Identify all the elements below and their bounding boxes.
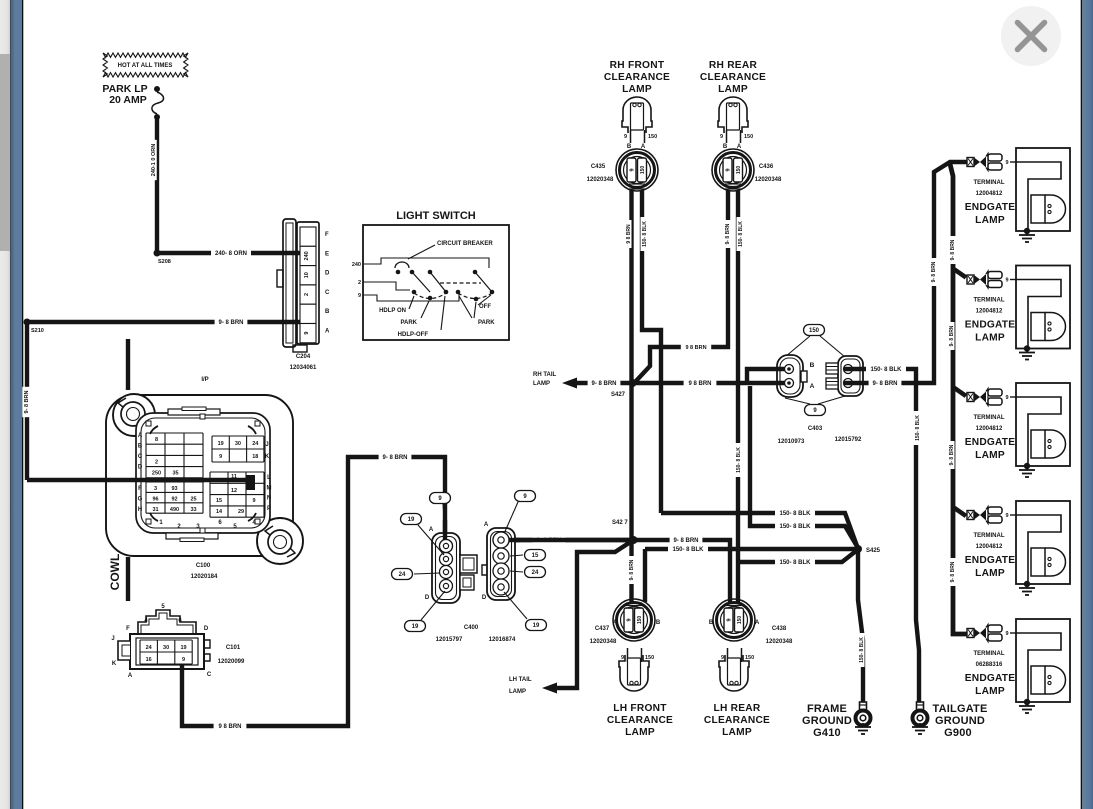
svg-text:150- 8 BLK: 150- 8 BLK	[779, 560, 811, 566]
svg-text:C: C	[207, 672, 212, 678]
svg-text:25: 25	[190, 496, 196, 502]
svg-text:F: F	[126, 626, 130, 632]
svg-text:19: 19	[412, 624, 419, 630]
svg-text:HDLP ON: HDLP ON	[379, 308, 406, 314]
svg-text:9: 9	[720, 134, 723, 140]
svg-text:K: K	[265, 454, 270, 460]
svg-text:F: F	[325, 232, 329, 238]
svg-text:S427: S427	[611, 392, 626, 398]
svg-text:240: 240	[352, 262, 361, 268]
svg-text:240-1 0 ORN: 240-1 0 ORN	[151, 144, 157, 176]
svg-text:G410: G410	[813, 727, 841, 739]
svg-text:PARK: PARK	[478, 320, 495, 326]
svg-text:9: 9	[727, 618, 733, 621]
svg-text:E: E	[325, 251, 329, 257]
svg-text:24: 24	[252, 441, 259, 447]
svg-text:N: N	[267, 496, 271, 502]
svg-text:9: 9	[726, 168, 732, 171]
svg-text:S210: S210	[31, 328, 44, 334]
svg-text:M: M	[267, 485, 272, 491]
svg-text:19: 19	[408, 517, 415, 523]
svg-text:9: 9	[1005, 395, 1008, 401]
svg-text:G: G	[138, 497, 143, 503]
svg-text:LAMP: LAMP	[509, 689, 526, 695]
svg-text:9: 9	[252, 498, 255, 504]
svg-text:9: 9	[1005, 160, 1008, 166]
svg-text:15: 15	[532, 553, 539, 559]
svg-text:LH REAR: LH REAR	[713, 703, 760, 714]
svg-text:GROUND: GROUND	[802, 715, 852, 727]
svg-text:LH TAIL: LH TAIL	[509, 677, 532, 683]
svg-text:LAMP: LAMP	[722, 727, 752, 738]
svg-text:150- 8 BLK: 150- 8 BLK	[915, 415, 921, 441]
svg-text:150: 150	[809, 328, 820, 334]
svg-text:C436: C436	[759, 164, 774, 170]
svg-text:ENDGATE: ENDGATE	[965, 555, 1015, 566]
svg-text:19: 19	[533, 623, 540, 629]
svg-text:C400: C400	[464, 625, 479, 631]
svg-text:8: 8	[155, 437, 158, 443]
svg-text:12010973: 12010973	[778, 439, 805, 445]
svg-text:ENDGATE: ENDGATE	[965, 437, 1015, 448]
svg-text:ENDGATE: ENDGATE	[965, 320, 1015, 331]
svg-text:TERMINAL: TERMINAL	[974, 298, 1005, 304]
svg-text:C438: C438	[772, 626, 787, 632]
svg-text:S42 7: S42 7	[612, 520, 628, 526]
svg-text:150- 8 BLK: 150- 8 BLK	[672, 547, 704, 553]
svg-text:9: 9	[627, 618, 633, 621]
svg-text:GROUND: GROUND	[935, 715, 985, 727]
svg-text:I/P: I/P	[201, 377, 208, 383]
svg-text:C: C	[325, 290, 330, 296]
svg-text:LAMP: LAMP	[533, 381, 550, 387]
svg-text:12004812: 12004812	[976, 544, 1003, 550]
svg-text:G900: G900	[944, 727, 972, 739]
svg-text:12020348: 12020348	[766, 639, 793, 645]
svg-text:D: D	[482, 595, 487, 601]
svg-text:RH TAIL: RH TAIL	[533, 372, 557, 378]
svg-text:S208: S208	[158, 259, 171, 265]
svg-text:150- 8 BLK: 150- 8 BLK	[736, 447, 742, 473]
svg-text:A: A	[128, 673, 133, 679]
svg-text:9- 8 BRN: 9- 8 BRN	[673, 538, 698, 544]
svg-text:PARK: PARK	[400, 320, 417, 326]
svg-text:A: A	[810, 383, 815, 390]
svg-text:2: 2	[304, 293, 310, 296]
svg-text:TERMINAL: TERMINAL	[974, 651, 1005, 657]
svg-text:C100: C100	[196, 563, 211, 569]
svg-text:18: 18	[252, 454, 258, 460]
svg-text:LAMP: LAMP	[975, 568, 1005, 579]
svg-text:9: 9	[182, 657, 185, 663]
svg-text:12020348: 12020348	[755, 177, 782, 183]
svg-text:9- 8 BRN: 9- 8 BRN	[382, 455, 407, 461]
svg-text:150- 8 BLK: 150- 8 BLK	[738, 221, 744, 247]
svg-text:F: F	[138, 486, 142, 492]
svg-text:A: A	[755, 620, 760, 626]
svg-text:9 8 BRN: 9 8 BRN	[685, 345, 706, 351]
svg-text:A: A	[613, 620, 618, 626]
svg-text:150: 150	[736, 166, 742, 175]
svg-text:LAMP: LAMP	[622, 84, 652, 95]
svg-text:9- 8 BRN: 9- 8 BRN	[949, 444, 955, 465]
svg-text:150: 150	[640, 166, 646, 175]
svg-text:9: 9	[1005, 513, 1008, 519]
svg-text:LAMP: LAMP	[975, 450, 1005, 461]
svg-text:D: D	[138, 465, 143, 471]
svg-text:C403: C403	[808, 426, 823, 432]
svg-text:240: 240	[304, 251, 310, 260]
svg-text:9: 9	[621, 655, 624, 661]
svg-text:150: 150	[737, 616, 743, 625]
svg-text:12034061: 12034061	[290, 365, 317, 371]
svg-text:OFF: OFF	[479, 304, 491, 310]
svg-text:C437: C437	[595, 626, 610, 632]
svg-text:35: 35	[172, 471, 178, 477]
svg-text:12020099: 12020099	[218, 659, 245, 665]
svg-text:12: 12	[231, 488, 237, 494]
svg-text:FRAME: FRAME	[807, 703, 847, 715]
svg-text:16: 16	[146, 657, 152, 663]
svg-text:COWL: COWL	[108, 554, 122, 591]
svg-text:CLEARANCE: CLEARANCE	[604, 72, 670, 83]
svg-text:12015797: 12015797	[436, 637, 463, 643]
svg-text:12004812: 12004812	[976, 426, 1003, 432]
svg-text:490: 490	[170, 507, 179, 513]
svg-text:150- 8 BLK: 150- 8 BLK	[779, 511, 811, 517]
svg-text:9: 9	[304, 332, 310, 335]
svg-text:150- 8 BLK: 150- 8 BLK	[779, 524, 811, 530]
svg-text:A: A	[138, 433, 143, 439]
svg-text:12016874: 12016874	[489, 637, 516, 643]
svg-text:RH FRONT: RH FRONT	[610, 60, 665, 71]
svg-text:9: 9	[1005, 278, 1008, 284]
svg-text:HDLP-OFF: HDLP-OFF	[398, 332, 429, 338]
svg-text:12004812: 12004812	[976, 191, 1003, 197]
svg-text:24: 24	[146, 645, 153, 651]
svg-text:A: A	[484, 522, 489, 528]
svg-text:9- 8 BRN: 9- 8 BRN	[218, 320, 243, 326]
svg-text:9: 9	[1005, 631, 1008, 637]
svg-text:240- 8 ORN: 240- 8 ORN	[215, 251, 247, 257]
svg-text:LAMP: LAMP	[975, 686, 1005, 697]
svg-text:LIGHT SWITCH: LIGHT SWITCH	[396, 210, 475, 222]
svg-text:12004812: 12004812	[976, 309, 1003, 315]
svg-text:250: 250	[152, 471, 161, 477]
svg-text:B: B	[810, 362, 815, 369]
svg-text:D: D	[204, 626, 209, 632]
svg-text:J: J	[111, 636, 114, 642]
svg-text:150: 150	[744, 134, 753, 140]
svg-text:LAMP: LAMP	[625, 727, 655, 738]
svg-text:S425: S425	[866, 548, 881, 554]
svg-text:10: 10	[304, 272, 310, 278]
svg-text:CLEARANCE: CLEARANCE	[700, 72, 766, 83]
svg-text:06288316: 06288316	[976, 662, 1003, 668]
svg-text:150: 150	[637, 616, 643, 625]
svg-text:2: 2	[155, 459, 158, 465]
svg-text:CLEARANCE: CLEARANCE	[704, 715, 770, 726]
svg-text:24: 24	[399, 572, 406, 578]
svg-text:9- 8 BRN: 9- 8 BRN	[591, 381, 616, 387]
svg-text:A: A	[429, 527, 434, 533]
svg-text:9- 8 BRN: 9- 8 BRN	[950, 561, 956, 582]
svg-text:150: 150	[745, 655, 754, 661]
svg-text:9: 9	[624, 134, 627, 140]
svg-text:LAMP: LAMP	[718, 84, 748, 95]
svg-text:C: C	[138, 454, 143, 460]
svg-text:12020348: 12020348	[587, 177, 614, 183]
svg-text:19: 19	[218, 441, 224, 447]
svg-text:P: P	[267, 506, 271, 512]
svg-text:C101: C101	[226, 645, 241, 651]
svg-text:ENDGATE: ENDGATE	[965, 202, 1015, 213]
svg-text:30: 30	[163, 645, 169, 651]
svg-text:H: H	[138, 507, 142, 513]
svg-text:B: B	[709, 620, 714, 626]
svg-text:9: 9	[219, 454, 222, 460]
svg-text:LH FRONT: LH FRONT	[613, 703, 667, 714]
svg-text:K: K	[112, 661, 117, 667]
svg-text:TERMINAL: TERMINAL	[974, 180, 1005, 186]
svg-text:B: B	[138, 444, 143, 450]
svg-text:CIRCUIT BREAKER: CIRCUIT BREAKER	[437, 241, 493, 247]
svg-text:C204: C204	[296, 354, 311, 360]
svg-text:B: B	[656, 620, 661, 626]
svg-text:9- 8 BRN: 9- 8 BRN	[931, 261, 937, 282]
svg-text:9- 8 BRN: 9- 8 BRN	[872, 381, 897, 387]
svg-text:14: 14	[216, 509, 223, 515]
svg-text:TERMINAL: TERMINAL	[974, 533, 1005, 539]
svg-text:D: D	[425, 595, 430, 601]
svg-text:12015792: 12015792	[835, 437, 862, 443]
svg-text:9 8 BRN: 9 8 BRN	[626, 224, 632, 244]
svg-text:33: 33	[190, 507, 196, 513]
svg-text:HOT AT ALL TIMES: HOT AT ALL TIMES	[118, 63, 173, 69]
svg-text:150- 8 BLK: 150- 8 BLK	[870, 367, 902, 373]
svg-text:RH REAR: RH REAR	[709, 60, 758, 71]
svg-text:TERMINAL: TERMINAL	[974, 415, 1005, 421]
svg-text:150: 150	[645, 655, 654, 661]
svg-text:9: 9	[358, 293, 361, 299]
svg-text:CLEARANCE: CLEARANCE	[607, 715, 673, 726]
svg-text:31: 31	[152, 507, 158, 513]
svg-text:9- 8 BRN: 9- 8 BRN	[949, 325, 955, 346]
svg-text:9 8 BRN: 9 8 BRN	[688, 381, 711, 387]
svg-text:9 8 BRN: 9 8 BRN	[218, 724, 241, 730]
svg-text:9- 8 BRN: 9- 8 BRN	[629, 559, 635, 580]
svg-text:LAMP: LAMP	[975, 333, 1005, 344]
svg-text:24: 24	[532, 570, 539, 576]
svg-text:9- 8 BRN: 9- 8 BRN	[950, 239, 956, 260]
svg-text:B: B	[325, 309, 330, 315]
svg-text:150- 8 BLK: 150- 8 BLK	[859, 637, 865, 663]
svg-text:2: 2	[358, 280, 361, 286]
svg-text:150: 150	[648, 134, 657, 140]
svg-text:LAMP: LAMP	[975, 215, 1005, 226]
svg-text:19: 19	[180, 645, 186, 651]
svg-text:12020184: 12020184	[191, 574, 218, 580]
svg-text:96: 96	[152, 496, 158, 502]
svg-text:150- 8 BLK: 150- 8 BLK	[642, 221, 648, 247]
svg-text:9- 8 BRN: 9- 8 BRN	[24, 391, 30, 414]
svg-text:20 AMP: 20 AMP	[109, 94, 147, 106]
svg-text:9: 9	[630, 168, 636, 171]
svg-text:93: 93	[171, 486, 177, 492]
svg-text:A: A	[325, 329, 330, 335]
svg-text:J: J	[265, 442, 268, 448]
svg-text:12020348: 12020348	[590, 639, 617, 645]
svg-text:C435: C435	[591, 164, 606, 170]
svg-text:D: D	[325, 271, 330, 277]
svg-text:15: 15	[216, 498, 222, 504]
svg-text:ENDGATE: ENDGATE	[965, 673, 1015, 684]
svg-text:9: 9	[721, 655, 724, 661]
svg-text:TAILGATE: TAILGATE	[933, 703, 988, 715]
svg-text:9- 8 BRN: 9- 8 BRN	[725, 223, 731, 244]
svg-text:L: L	[267, 475, 271, 481]
svg-text:29: 29	[238, 509, 244, 515]
svg-text:3: 3	[154, 486, 157, 492]
svg-text:30: 30	[235, 441, 241, 447]
svg-text:92: 92	[171, 496, 177, 502]
